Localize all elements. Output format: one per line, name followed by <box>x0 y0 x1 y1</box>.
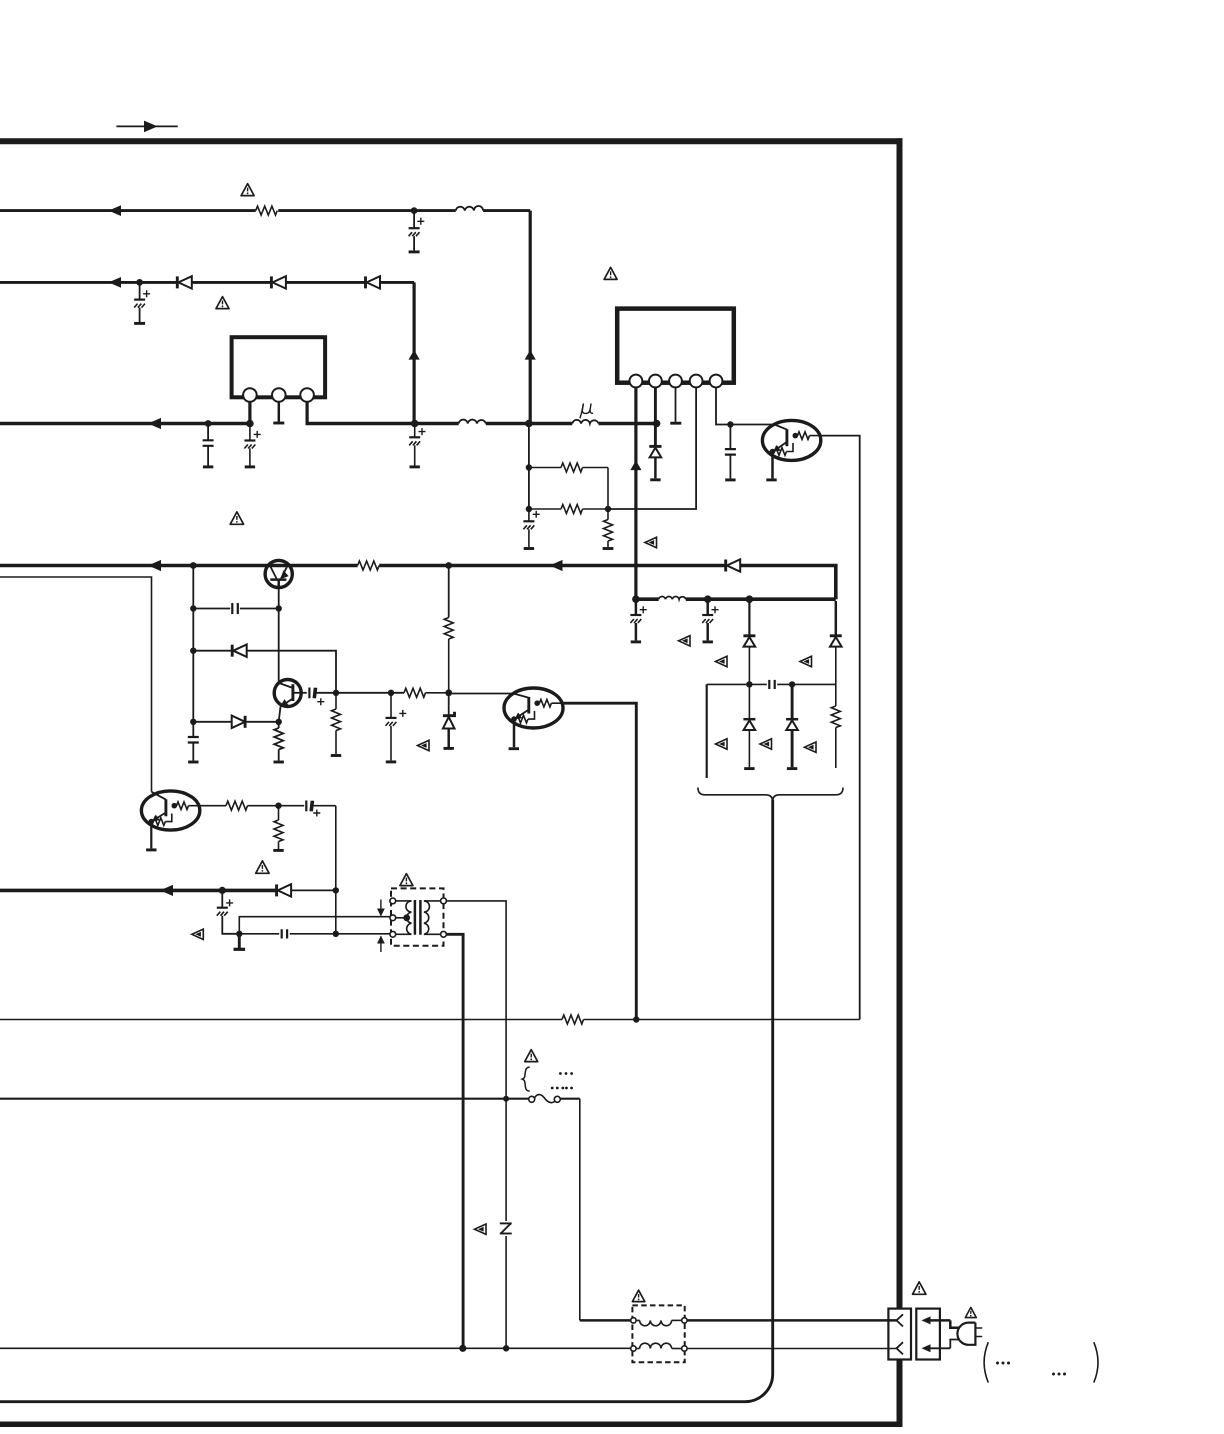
safety mark triangle near N <box>475 1224 487 1234</box>
wire: filter neutral out to connector <box>687 1348 896 1350</box>
wire: coupling line y=933.8 <box>239 933 392 935</box>
capacitor C12 electrolytic <box>630 599 646 642</box>
node: junction D6 <box>190 648 196 654</box>
ground: U2 pin3 <box>670 422 681 425</box>
node: junction Q3 emitter / R6 <box>276 719 282 725</box>
node: junction C13 <box>704 595 712 603</box>
capacitor C6 electrolytic <box>523 509 539 549</box>
safety mark triangle <box>805 742 817 752</box>
wire: feedback tap line y=916.7 <box>239 917 392 934</box>
node: junction rail/C3 <box>205 420 212 427</box>
pin: CN1 hot chevron <box>897 1314 904 1326</box>
capacitor C14 series <box>769 680 774 689</box>
wire: Q1 output to feedback drop <box>821 436 860 1020</box>
ground: Q5 emitter <box>146 848 156 851</box>
wire: T1 secondary bottom to AC line <box>446 934 463 1348</box>
warning triangle above line filter <box>632 1290 644 1301</box>
resistor R10 <box>226 801 279 810</box>
pin 1 of U2 <box>630 375 643 388</box>
pin 1 of U1 <box>243 388 257 402</box>
pin: CN1 neutral chevron <box>897 1342 904 1354</box>
wire: U1 pin1 to rail <box>248 402 251 424</box>
wire: thin continuation of row1 drop <box>528 425 530 509</box>
wire: feedback line <box>0 1019 562 1021</box>
wire: U1 pin3 to rail right segment <box>306 402 309 424</box>
node: junction D12 <box>789 681 795 687</box>
divider network below row1 drop <box>523 387 696 548</box>
arrow: current direction left mid-bus <box>550 560 563 571</box>
wire: CN2 hot to plug <box>950 1320 959 1327</box>
capacitor C5 electrolytic <box>409 427 425 467</box>
wire: row1 drop to main rail <box>529 211 532 424</box>
node: junction C11 <box>388 690 394 696</box>
ground: U1 pin2 <box>273 422 284 425</box>
diode D6 <box>193 645 336 693</box>
wire: shield enclosure right edge upper part <box>897 138 903 1308</box>
wire: main rail right segment <box>306 422 657 426</box>
node: junction D7 <box>190 719 196 725</box>
arrow: polarity mark lower <box>377 936 385 953</box>
wire: Q5 base lead <box>200 805 226 807</box>
resistor R8 <box>331 693 341 756</box>
power IC U2 <box>604 267 774 599</box>
capacitor C13 electrolytic <box>702 599 718 642</box>
fuse F1 <box>529 1095 561 1103</box>
arrow: current direction left <box>109 277 122 288</box>
connector CN2 cord side <box>916 1309 959 1360</box>
pin: CN2 hot arrow <box>922 1316 951 1324</box>
wire: U2 pin4 feedback <box>608 387 696 509</box>
resistor R9 <box>831 684 840 768</box>
diode D5 <box>726 559 741 571</box>
connector CN1 chassis side <box>888 1309 911 1360</box>
resistor R4 <box>603 509 614 549</box>
node: junction R3/R4/U2 pin4 <box>605 506 611 512</box>
capacitor C10 electrolytic series <box>309 688 336 706</box>
resistor R3 <box>529 505 608 514</box>
safety mark triangle <box>192 929 204 939</box>
transformer T1 <box>377 888 446 952</box>
wire: HV bus thick part <box>0 889 277 893</box>
resistor R11 <box>273 806 283 851</box>
regulator IC U1 <box>232 337 326 423</box>
wire: row2 rail <box>0 281 414 284</box>
node: junction rail/IC1 pin1 <box>246 420 254 428</box>
node: junction rail end / U2 pin2 <box>653 420 661 428</box>
wire: row2 drop to main rail <box>413 282 416 423</box>
winding: T1 secondary <box>424 901 441 934</box>
MAIN RAIL left segment y=423.5 <box>0 418 261 467</box>
capacitor C3 <box>203 424 214 467</box>
wire: Q3 base lead <box>293 692 307 694</box>
transistor Q3 <box>274 589 307 722</box>
label: dots in note second <box>1052 1373 1066 1376</box>
pin: T1 secondary bottom <box>441 931 447 937</box>
node: junction pin1 line end <box>632 595 640 603</box>
AC SENSE LINE y=1098.7 <box>0 1095 580 1321</box>
node: junction bus/R7 drop <box>445 562 452 569</box>
node: junction D13 / C15 drop <box>333 887 339 893</box>
node: junction bus/error network <box>190 562 197 569</box>
node: junction D11 <box>746 681 752 687</box>
warning triangle <box>604 267 617 279</box>
pin 3 of U2 <box>669 375 682 388</box>
inductor FL1 top winding <box>636 1320 682 1325</box>
RECTIFIED HV BUS y=890.4 <box>0 884 393 949</box>
pin: FL1 bottom right <box>682 1346 687 1351</box>
line filter FL1 <box>580 1305 897 1362</box>
inductor L1 <box>456 206 483 211</box>
capacitor C8 <box>193 608 230 610</box>
label: dotted note line 2 <box>551 1087 573 1090</box>
arrow: current direction left <box>109 205 122 216</box>
diode D10 <box>830 601 842 684</box>
node: junction opto drive <box>633 1016 639 1022</box>
ground: Q1 emitter <box>766 478 776 481</box>
AC NEUTRAL LINE y=1348.3 <box>0 1345 631 1352</box>
wire: U2 pin1 main switch line down to bus5 <box>634 387 637 599</box>
wire: neutral line <box>0 1347 631 1349</box>
safety mark triangle near D4 <box>645 537 657 547</box>
resistor R5 in bus <box>358 561 380 570</box>
arrow: up flow on drop wire <box>525 350 536 360</box>
arrow: up flow on drop wire <box>409 350 420 360</box>
wire: line from left edge <box>0 1098 529 1100</box>
warning triangle above rectified bus <box>256 861 269 873</box>
pin 2 of U2 <box>649 375 662 388</box>
node: junction sense drop <box>503 1096 509 1102</box>
capacitor C16 electrolytic <box>217 890 240 933</box>
label: parenthesis open <box>984 1342 988 1382</box>
wire: column from bus <box>192 566 194 737</box>
diode D2 <box>271 276 286 288</box>
diode D12 <box>786 684 798 768</box>
resistor R2 <box>529 463 608 472</box>
wire: feed from left edge to Q5 <box>0 577 152 792</box>
diode D13 <box>277 884 336 896</box>
safety mark triangle <box>800 656 812 666</box>
warning triangle above plug connector <box>913 1282 926 1294</box>
capacitor C1 electrolytic <box>409 211 425 252</box>
warning triangle <box>230 512 243 524</box>
wire: U2 pin5 to opto divider <box>716 387 730 424</box>
warning triangle small above plug <box>965 1307 976 1317</box>
digital transistor Q4 <box>504 688 563 749</box>
label: mu of L3 <box>580 404 593 419</box>
inductor L2 <box>459 420 486 424</box>
flow direction arrow at top <box>116 121 177 133</box>
wire: U2 pin3 ground stem <box>675 387 677 421</box>
arrow: current direction left <box>160 885 173 896</box>
diode D4 zener <box>649 446 661 479</box>
warning triangle above T1 <box>400 874 413 886</box>
node: junction ground tap <box>236 931 242 937</box>
safety mark triangle near D8 <box>418 740 430 750</box>
inductor L4 <box>659 597 686 600</box>
SNUBBER BUS y=599.2 <box>630 595 843 799</box>
error amp network column x=193 <box>188 566 336 763</box>
safety mark triangle <box>716 739 728 749</box>
wire: left leg down <box>706 684 708 778</box>
wire: to C15 <box>279 805 305 807</box>
warning triangle <box>241 184 254 196</box>
diode D1 <box>177 276 192 288</box>
inductor L3 micro <box>572 420 598 424</box>
label: dotted note line 1 <box>559 1072 573 1075</box>
wire: pin5 node to Q1 <box>730 424 774 426</box>
safety mark triangle <box>679 636 691 646</box>
SECONDARY BUS y=565.5 <box>0 512 836 599</box>
pin: T1 primary tap <box>390 915 396 921</box>
wire: T1 secondary top to sense line <box>446 901 506 1099</box>
brace grouping snubber parts <box>698 788 843 800</box>
safety mark triangle <box>760 739 772 749</box>
wire: sense line lower segment with N label gap <box>505 1099 507 1349</box>
node: junction AC hot drop <box>459 1345 466 1352</box>
node: junction rail/row1 drop <box>525 420 533 428</box>
inductor FL1 bottom winding <box>636 1343 682 1348</box>
wire: R7 drop from bus <box>444 566 453 693</box>
arrow: current direction left <box>148 418 161 429</box>
arrow: polarity mark upper <box>377 900 385 917</box>
resistor R12 <box>562 1015 583 1024</box>
wire: row1 rail <box>0 209 530 212</box>
capacitor C9 <box>188 737 199 763</box>
diode D8 zener <box>443 693 455 749</box>
wire: U2 pin2 stem <box>654 387 657 445</box>
node: junction pin5/C7 <box>727 421 733 427</box>
capacitor C17 series <box>282 929 287 938</box>
FEEDBACK LINE y=1019.5 <box>0 1015 860 1024</box>
pin 4 of U2 <box>690 375 703 388</box>
wire: base line to C11 <box>336 692 404 694</box>
wire: filter hot in <box>580 1319 631 1322</box>
MAIN RAIL right segment y=423.5 <box>306 387 682 467</box>
wire: after fuse to corner <box>560 1098 580 1100</box>
Q5 base input network <box>200 801 336 934</box>
capacitor C15 electrolytic series <box>306 801 336 817</box>
pin: T1 primary top <box>390 898 396 904</box>
node: junction C8 <box>190 605 196 611</box>
digital transistor Q5 <box>141 791 199 850</box>
pin: T1 secondary top <box>441 898 447 904</box>
resistor R7 <box>404 688 449 697</box>
wire: corner down to node <box>607 468 609 510</box>
pin: FL1 top left <box>631 1318 636 1323</box>
node: junction row1/C1 <box>411 207 418 214</box>
transistor Q2 <box>265 560 292 589</box>
wire: ground return line from brace stem with rounded corner <box>0 800 773 1402</box>
node: junction rail/row2 drop <box>411 420 419 428</box>
wire: filter hot out to connector <box>687 1319 896 1322</box>
wire: U1 pin2 stem <box>278 402 281 422</box>
warning triangle above fuse <box>525 1050 538 1062</box>
wire: corner down to rectifier row <box>335 806 337 934</box>
safety mark triangle <box>716 656 728 666</box>
core of T1 <box>415 900 421 935</box>
diode D3 <box>366 276 381 288</box>
resistor R6 <box>274 722 284 762</box>
wire: secondary bus <box>0 566 836 600</box>
resistor R1 <box>256 206 278 215</box>
wire: shield enclosure right edge lower part <box>897 1360 903 1428</box>
arrow: current direction left <box>148 560 161 571</box>
wire: CN2 neutral to plug <box>950 1340 959 1349</box>
diode D11 <box>743 684 755 768</box>
brace for fuse note <box>522 1067 530 1091</box>
node: junction at y509 <box>526 506 532 512</box>
pin 2 of U1 <box>272 388 286 402</box>
wire: snubber bus <box>636 597 836 601</box>
wire: main rail left segment <box>0 422 252 426</box>
node: junction C16 <box>219 887 226 894</box>
node: junction at y467 <box>526 464 532 470</box>
node: junction Q2 collector line <box>276 605 282 611</box>
digital transistor Q1 <box>762 420 820 480</box>
capacitor C11 electrolytic <box>386 693 407 762</box>
wire: snubber cross line y=684.4 <box>707 683 836 685</box>
node: junction D9 <box>746 595 754 603</box>
label: parenthesis close <box>1094 1342 1098 1382</box>
wire: shield enclosure top edge <box>0 138 903 144</box>
ROW 2 : rectified rail y=282.4 <box>0 276 420 423</box>
left feed wire y=577 <box>0 577 152 792</box>
node: junction sense drop end <box>503 1345 509 1351</box>
ROW 1 : output rail y=210.6 <box>0 184 536 424</box>
pin: CN2 neutral arrow <box>922 1344 951 1352</box>
arrow: up flow on pin1 line <box>630 461 641 471</box>
wire: shield enclosure bottom edge <box>0 1421 903 1427</box>
node: junction C15 drop end <box>333 931 339 937</box>
pin: FL1 top right <box>682 1318 687 1323</box>
wire: Q4 output to optocoupler drive <box>563 703 636 1019</box>
ground: primary return <box>234 934 246 950</box>
capacitor C2 electrolytic <box>134 282 150 323</box>
pin 5 of U2 <box>710 375 723 388</box>
node: junction row2/C2 <box>136 279 143 286</box>
wire: Q2 to Q3 collector <box>278 589 280 683</box>
pin: FL1 bottom left <box>631 1346 636 1351</box>
capacitor C4 electrolytic <box>244 427 260 467</box>
pin 3 of U1 <box>300 388 314 402</box>
AC plug P1 <box>957 1323 982 1345</box>
label: N neutral rotated <box>500 1223 512 1233</box>
node: junction Q4 base node <box>445 689 452 696</box>
winding: T1 primary <box>396 901 412 934</box>
diode D7 <box>193 716 276 728</box>
capacitor C7 <box>725 425 736 480</box>
warning triangle <box>216 297 229 309</box>
ground: Q4 emitter <box>509 747 519 750</box>
diode D9 <box>743 599 755 684</box>
wire: base node to Q4 <box>449 693 514 695</box>
node: junction Q3 base / D6 drop <box>333 690 339 696</box>
wire: drop to line filter <box>579 1099 581 1321</box>
pin: T1 primary bottom <box>390 931 396 937</box>
node: junction R11 <box>275 803 281 809</box>
label: dots in note <box>996 1362 1010 1365</box>
wire: feedback line right part <box>584 1019 860 1021</box>
